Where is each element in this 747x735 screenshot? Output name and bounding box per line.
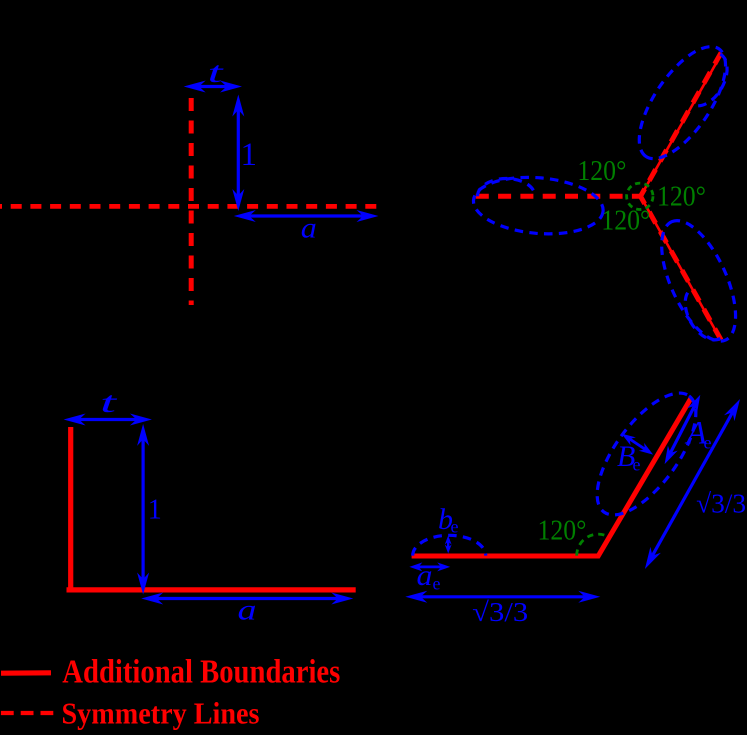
dimension arrow A_e (bent figure) <box>665 395 701 464</box>
svg-text:1: 1 <box>148 495 162 526</box>
svg-text:Additional Boundaries: Additional Boundaries <box>62 653 340 690</box>
thin boundary line lower-right arm (star) <box>641 196 721 338</box>
svg-text:Symmetry Lines: Symmetry Lines <box>62 695 260 730</box>
dimension arrow a_e (bent figure) <box>409 562 450 571</box>
svg-text:e: e <box>451 517 459 537</box>
dimension arrow sqrt3/3 right (bent figure) <box>645 399 740 569</box>
dome half-ellipse b_e (bent figure) <box>413 535 486 555</box>
svg-text:120°: 120° <box>577 155 626 187</box>
upper-right arm: symmetry line, lobe ellipse, tip dome (star) <box>603 28 744 208</box>
legend solid line sample <box>1 670 51 676</box>
dimension arrow 1 (L figure) <box>137 424 149 595</box>
svg-text:120°: 120° <box>601 205 650 237</box>
angle arc 120deg at bend <box>577 534 609 555</box>
lower-right arm: symmetry line, lobe ellipse, tip dome (star) <box>620 176 747 356</box>
symmetry line vertical (cross figure) <box>189 98 194 305</box>
svg-text:√3/3: √3/3 <box>696 488 746 518</box>
legend dashed line sample <box>1 711 54 715</box>
svg-text:a: a <box>238 594 257 627</box>
dimension arrow a (L figure) <box>141 593 353 605</box>
svg-text:√3/3: √3/3 <box>472 597 528 627</box>
dimension arrow t (cross figure) <box>184 81 242 93</box>
additional boundary L-shape (quarter section) <box>67 427 356 590</box>
dimension arrow sqrt3/3 bottom (bent figure) <box>405 591 600 603</box>
svg-text:120°: 120° <box>657 180 706 212</box>
svg-text:e: e <box>633 455 641 475</box>
additional boundary bent line (third section) <box>412 398 691 556</box>
svg-text:1: 1 <box>240 137 257 173</box>
dimension arrow a (cross figure) <box>234 210 379 222</box>
svg-text:120°: 120° <box>538 515 587 547</box>
dimension arrow 1 (cross figure) <box>232 95 244 212</box>
dimension arrow b_e (bent figure) <box>445 536 452 554</box>
svg-text:a: a <box>301 212 317 245</box>
dimension arrow B_e (bent figure) <box>622 434 654 455</box>
lobe ellipse (bent figure) <box>579 378 714 531</box>
svg-text:t: t <box>100 386 117 419</box>
svg-text:a: a <box>417 559 433 592</box>
svg-text:t: t <box>208 56 224 89</box>
thin boundary line upper-right arm (star) <box>641 56 721 197</box>
angle circle 120deg marks at star center <box>627 183 653 209</box>
svg-text:e: e <box>433 574 441 594</box>
symmetry line horizontal (cross figure) <box>0 204 381 209</box>
left arm: symmetry line, lobe ellipse, tip dome (star) <box>471 172 640 238</box>
dimension arrow t (L figure) <box>64 414 152 426</box>
